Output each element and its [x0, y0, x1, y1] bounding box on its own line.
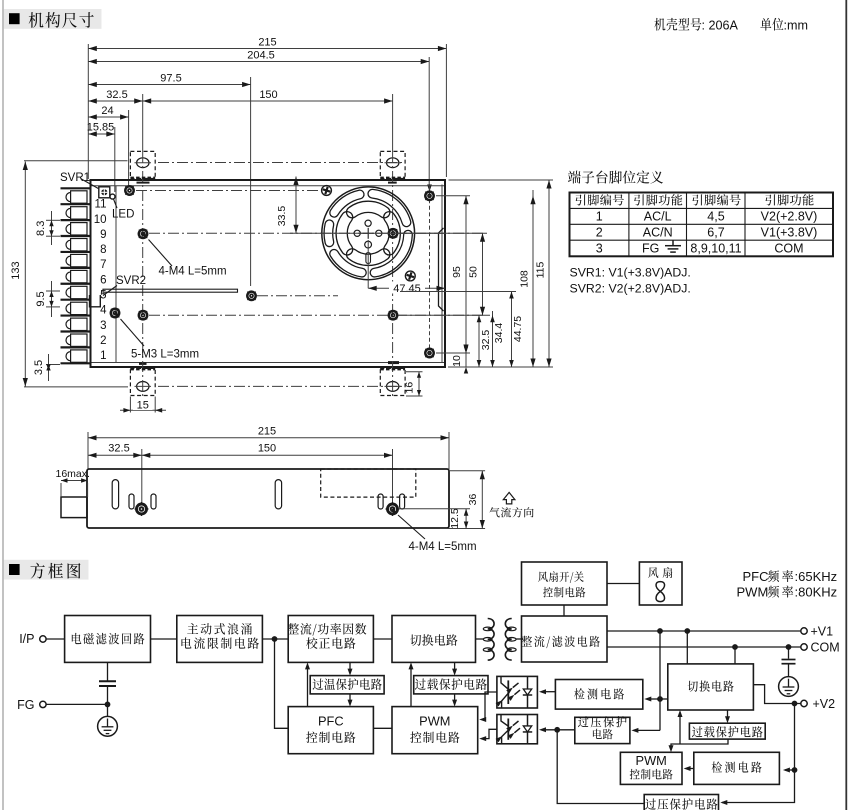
side view callout 4-M4 L=5mm [390, 508, 476, 553]
svg-text:1: 1 [596, 210, 603, 224]
section header: mechanical dimensions title [4, 9, 102, 29]
svg-text:4-M4 L=5mm: 4-M4 L=5mm [159, 266, 227, 278]
screw lower-left flange line [139, 311, 147, 319]
block: fan on-off control [522, 562, 608, 605]
svg-text:5-M3 L=3mm: 5-M3 L=3mm [131, 349, 199, 361]
mounting flange top-left (dashed) [130, 151, 155, 178]
wire COM node to switching secondary [734, 647, 736, 664]
wire opto2 to PWM control left [479, 729, 497, 741]
svg-text:4-M4 L=5mm: 4-M4 L=5mm [409, 541, 477, 553]
side view dim 12.5 [399, 508, 471, 529]
wire V1 feedback down with node [657, 631, 668, 730]
wire V1 node to switching secondary [686, 631, 688, 664]
fan mounting screw upper-left phillips [322, 186, 332, 196]
flange centerline horizontal top [158, 162, 404, 164]
dim 15 (flange width) [120, 397, 166, 413]
svg-text:3: 3 [596, 241, 603, 255]
dim 115 (chassis depth) [535, 180, 552, 367]
side view dim 36 [440, 471, 485, 529]
screw bottom-right [425, 349, 433, 357]
wire V2 node down to detection bottom and OVP bottom [720, 704, 797, 806]
wire switching secondary to +V2 [753, 685, 800, 707]
top-right label: case model 206A, unit mm [654, 18, 808, 33]
block: switching circuit primary [392, 616, 476, 663]
feedback wire PWM control to switching [409, 662, 414, 706]
centerline horizontal center screw row [257, 295, 338, 297]
side view dim 215 [88, 426, 449, 470]
wire +V1 bus [607, 628, 801, 634]
dim 97.5 [88, 73, 250, 287]
svg-text:9: 9 [100, 229, 106, 241]
wire fan control to fan [607, 583, 639, 585]
transformer T1 [483, 619, 516, 661]
dim 133 (overall height with flanges) [10, 161, 128, 387]
fan mounting screw lower-right phillips [405, 271, 415, 281]
dim 44.75 [509, 292, 524, 368]
svg-text:2: 2 [596, 226, 603, 240]
earth symbol in table FG cell [665, 241, 681, 253]
wire thermal protect to PFC control [348, 694, 353, 707]
svg-text:V2(+2.8V): V2(+2.8V) [761, 210, 818, 224]
svg-text:44.75: 44.75 [512, 316, 524, 342]
side view vent slots tall [112, 480, 281, 509]
wire OVP mid to opto2 with node [539, 727, 575, 733]
potentiometer SVR1 [60, 172, 110, 198]
centerline horizontal mid through 4-M4 screws [149, 232, 483, 234]
fan guard outer ring slots [324, 189, 412, 277]
dim 10 [451, 347, 468, 374]
svg-text:AC/N: AC/N [643, 226, 673, 240]
extension lines right screws [399, 180, 554, 367]
terminal block comb (11 terminals) [61, 188, 92, 363]
svg-text:SVR1: V1(+3.8V)ADJ.: SVR1: V1(+3.8V)ADJ. [570, 266, 691, 280]
mounting flange top-right (dashed) [380, 151, 405, 178]
block: active inrush current limiter [177, 616, 263, 663]
dim 9.5 (terminal pitch) [35, 281, 60, 317]
svg-text:PWM: PWM [737, 585, 769, 600]
wire transformer to rectifier filter [517, 638, 522, 640]
input terminal I/P [19, 632, 46, 646]
svg-text:6,7: 6,7 [707, 226, 724, 240]
svg-text:16max.: 16max. [56, 468, 90, 480]
wire COM bus [607, 644, 801, 650]
block: detection circuit mid [555, 680, 642, 710]
fan blade symbol [656, 582, 665, 602]
svg-text:24: 24 [101, 105, 113, 117]
section header: block diagram title [4, 560, 89, 580]
optocoupler U1 internals [496, 676, 533, 708]
wire detection bottom to PWM control R [684, 766, 694, 771]
chassis top view outline [91, 179, 446, 368]
wire PFC stage to thermal protect [348, 662, 353, 675]
table title: terminal pin definition [568, 171, 663, 184]
screw 5-M3 [111, 309, 119, 317]
wire PFC control to PWM control [373, 727, 392, 729]
svg-text:9.5: 9.5 [35, 291, 47, 306]
svg-text:LED: LED [112, 209, 134, 221]
block: PFC control circuit [288, 707, 373, 754]
svg-text:PFC: PFC [743, 569, 769, 584]
earth ground symbol right [779, 677, 799, 697]
page left border [2, 0, 4, 810]
optocoupler U2 internals [496, 715, 533, 744]
svg-text:108: 108 [519, 270, 531, 288]
wire PWM control R feedback to switching secondary [678, 710, 683, 744]
PFC PWM frequency labels [737, 569, 838, 600]
svg-text:I/P: I/P [19, 632, 34, 646]
earth ground symbol left [98, 704, 118, 736]
wire feedback to OVP mid with arrow [631, 728, 660, 733]
callout 5-M3 L=3mm [113, 311, 199, 360]
svg-text::80KHz: :80KHz [795, 585, 838, 600]
svg-text:PWM: PWM [636, 753, 667, 768]
svg-text:47.45: 47.45 [393, 283, 421, 295]
svg-text:133: 133 [10, 261, 22, 279]
screw top-left near SVR1 [125, 186, 133, 194]
block: over-voltage protection mid [575, 716, 630, 744]
mounting flange bottom-right (dashed) [380, 368, 405, 395]
svg-text:FG: FG [642, 241, 659, 255]
svg-text:4: 4 [100, 305, 107, 317]
wire PFC stage to switching [373, 638, 392, 640]
wire inrush to PFC stage with node [262, 636, 288, 642]
capacitor C1 EMI to ground [99, 662, 116, 704]
svg-text:8,9,10,11: 8,9,10,11 [690, 241, 741, 255]
output terminal +V2 [801, 697, 835, 711]
block: overload protection right [689, 723, 765, 739]
dim 16max [56, 468, 90, 497]
svg-text:COM: COM [774, 241, 803, 255]
note SVR1 adjust [570, 266, 691, 280]
side view terminal block protrusion [61, 497, 87, 518]
dim 3.5 [33, 354, 60, 381]
svg-text:115: 115 [535, 261, 547, 278]
dim 16 (flange height) [403, 372, 422, 396]
svg-text:50: 50 [468, 266, 480, 278]
dim 50 [468, 233, 486, 315]
dim 215 (top view overall width) [88, 37, 446, 180]
centerline horizontal top screw row [136, 190, 322, 192]
wire switching to transformer [476, 638, 484, 640]
chassis bottom edge tabs [137, 183, 400, 364]
svg-text:10: 10 [451, 355, 463, 367]
wire I/P to EMI filter [46, 638, 65, 640]
screw center [247, 292, 255, 300]
block: rectifier PFC stage [288, 616, 374, 663]
svg-text:36: 36 [467, 494, 479, 506]
side view screw left [137, 504, 147, 514]
block: PWM control circuit left [392, 707, 478, 754]
svg-text:6: 6 [100, 274, 106, 286]
block: overload protection left [414, 676, 488, 694]
block: output rectifier filter [522, 616, 608, 662]
fan hub holes and center cross [354, 220, 382, 263]
svg-text:215: 215 [258, 37, 276, 49]
svg-text:SVR2: V2(+2.8V)ADJ.: SVR2: V2(+2.8V)ADJ. [570, 282, 691, 296]
fan guard outer circle [322, 187, 415, 280]
airflow direction arrow [489, 492, 533, 517]
svg-text:150: 150 [259, 89, 277, 101]
svg-text:4,5: 4,5 [707, 210, 724, 224]
centerline vertical left mounting [142, 152, 144, 398]
svg-text:7: 7 [100, 259, 106, 271]
svg-text:15: 15 [137, 400, 149, 412]
svg-text:11: 11 [95, 199, 107, 211]
dim 204.5 [88, 50, 432, 192]
wire fan control to rectifier filter [563, 605, 565, 616]
svg-text:+V1: +V1 [811, 625, 834, 639]
svg-text:32.5: 32.5 [480, 330, 492, 351]
svg-text:AC/L: AC/L [644, 210, 672, 224]
wire overload protect to PWM control [452, 694, 457, 707]
svg-text:: 206A: : 206A [702, 19, 739, 33]
svg-text:16: 16 [403, 382, 415, 394]
terminal numbers 11..1 [94, 199, 107, 363]
svg-text:2: 2 [100, 335, 106, 347]
screw 4-M4 right (dark) [389, 229, 397, 237]
block: fan [639, 562, 682, 605]
output terminal COM [801, 641, 840, 655]
svg-text:10: 10 [94, 214, 107, 226]
svg-text:32.5: 32.5 [106, 89, 127, 101]
svg-text:SVR2: SVR2 [116, 275, 146, 287]
svg-text:FG: FG [17, 698, 34, 712]
screw lower-right flange line [389, 311, 397, 319]
svg-text:33.5: 33.5 [276, 206, 288, 227]
flange contact thick dashes [130, 178, 405, 369]
screw 4-M4 left [139, 230, 147, 238]
note SVR2 adjust [570, 282, 691, 296]
svg-text:PWM: PWM [419, 714, 450, 729]
svg-text:95: 95 [451, 266, 463, 278]
svg-text:1: 1 [100, 350, 106, 362]
svg-text:12.5: 12.5 [449, 508, 461, 529]
svg-text:3: 3 [100, 320, 106, 332]
optocoupler U2 [497, 715, 538, 744]
dim 95 (right screws pitch) [451, 196, 469, 353]
block: switching circuit secondary [668, 664, 754, 710]
flange centerline horizontal bottom [158, 385, 404, 387]
dim 15.85 [87, 122, 115, 193]
wire detection mid to optocoupler 1 [539, 689, 555, 694]
dim 47.45 (fan center to right edge) [368, 240, 445, 295]
page right border [845, 0, 847, 810]
dim 33.5 (fan center from top) [276, 177, 445, 234]
block: PWM control circuit right [620, 752, 682, 784]
wire node to PFC control [275, 639, 289, 728]
block: detection circuit bottom [694, 752, 780, 784]
potentiometer SVR2 [90, 275, 147, 307]
dim 32.5 right [477, 315, 492, 367]
svg-text:15.85: 15.85 [87, 122, 115, 134]
svg-text:SVR1: SVR1 [60, 172, 90, 184]
ground terminal FG [17, 698, 46, 712]
svg-text:3.5: 3.5 [33, 360, 45, 375]
svg-text:34.4: 34.4 [493, 323, 505, 344]
wire switching to overload protect L [452, 662, 457, 675]
svg-text:215: 215 [258, 426, 276, 438]
dim 34.4 [490, 311, 505, 367]
svg-text:PFC: PFC [318, 714, 344, 729]
side view dims 32.5 and 150 [88, 443, 393, 506]
centerline vertical right screws [429, 186, 431, 358]
svg-text:32.5: 32.5 [108, 443, 129, 455]
svg-text:+V2: +V2 [813, 697, 836, 711]
feedback wire PFC control to PFC stage [305, 662, 310, 706]
dim 8.3 (terminal pitch) [35, 211, 60, 245]
wire FG to ground node [46, 702, 110, 708]
svg-text:8.3: 8.3 [35, 221, 47, 236]
output terminal +V1 [801, 625, 833, 639]
svg-text:V1(+3.8V): V1(+3.8V) [761, 226, 818, 240]
callout 4-M4 L=5mm [141, 232, 226, 278]
dim 24 [88, 105, 128, 186]
svg-text::mm: :mm [784, 19, 808, 33]
optocoupler U1 [497, 676, 538, 708]
block: over-temperature protection [310, 676, 384, 694]
block: over-voltage protection bottom [644, 795, 718, 810]
fan guard inner ring slots [336, 201, 400, 265]
terminal definition table [570, 193, 834, 257]
side view small slots [129, 494, 405, 509]
svg-text:COM: COM [811, 641, 840, 655]
screw top-right (dark) [425, 192, 433, 200]
centerline vertical right mounting [392, 152, 394, 398]
side view hidden fan box dashed [321, 469, 416, 497]
svg-text:204.5: 204.5 [247, 50, 275, 62]
wire opto1 to PWM control left [479, 692, 497, 722]
wire EMI filter to inrush limiter [151, 638, 177, 640]
wire feedback to detection mid with arrow [644, 697, 660, 702]
svg-text:97.5: 97.5 [160, 73, 181, 85]
wire switching secondary to overload protect R [725, 710, 730, 723]
side view screw right [388, 504, 398, 514]
dim 108 [519, 190, 536, 367]
svg-text::65KHz: :65KHz [795, 569, 838, 584]
LED indicator [110, 194, 134, 220]
svg-text:150: 150 [258, 443, 276, 455]
side view chassis outline [87, 469, 449, 528]
wire node down to OVP bottom [557, 730, 644, 804]
mounting flange bottom-left (dashed) [130, 368, 155, 395]
centerline horizontal lower screw row [149, 314, 486, 316]
capacitor C2 COM to earth [782, 647, 796, 677]
SVR2 slot bar [103, 289, 238, 292]
right side bracket feature [439, 228, 444, 311]
wire overload R to PWM control R [669, 739, 729, 752]
dim 32.5 and 150 (mounting hole pitch) [88, 89, 392, 152]
block: EMI filter (dianci lvbo huilu) [65, 616, 151, 663]
svg-text:8: 8 [100, 244, 106, 256]
